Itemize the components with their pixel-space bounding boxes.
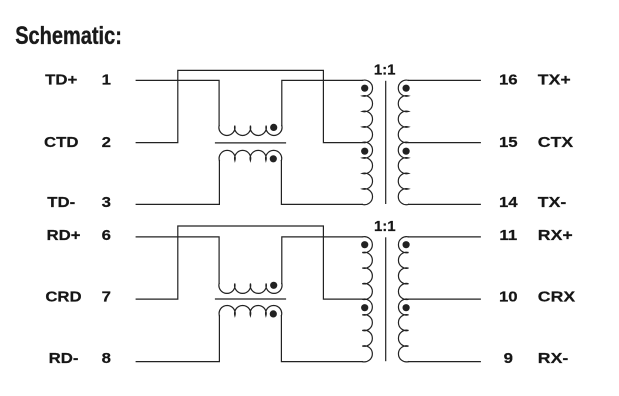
svg-text:CTX: CTX <box>538 134 573 150</box>
svg-text:7: 7 <box>102 289 111 305</box>
svg-text:3: 3 <box>102 195 111 211</box>
svg-text:CRX: CRX <box>538 289 575 305</box>
svg-text:6: 6 <box>102 228 111 244</box>
svg-text:CTD: CTD <box>44 135 78 151</box>
svg-text:16: 16 <box>499 72 518 88</box>
svg-text:2: 2 <box>102 135 111 151</box>
svg-text:Schematic:: Schematic: <box>15 22 122 50</box>
svg-text:RX-: RX- <box>538 350 568 366</box>
svg-text:TD-: TD- <box>47 195 75 211</box>
svg-text:CRD: CRD <box>45 289 81 305</box>
svg-text:RX+: RX+ <box>538 227 573 243</box>
svg-text:TX-: TX- <box>538 194 566 210</box>
svg-text:9: 9 <box>504 351 513 367</box>
svg-text:10: 10 <box>499 289 518 305</box>
svg-text:TD+: TD+ <box>45 72 77 88</box>
svg-text:RD-: RD- <box>49 351 79 367</box>
svg-text:14: 14 <box>499 195 518 211</box>
svg-text:1:1: 1:1 <box>374 61 396 78</box>
svg-text:15: 15 <box>499 135 518 151</box>
svg-text:11: 11 <box>499 228 517 244</box>
svg-text:TX+: TX+ <box>538 72 571 88</box>
svg-text:8: 8 <box>102 351 111 367</box>
svg-text:RD+: RD+ <box>46 228 80 244</box>
svg-text:1: 1 <box>102 72 111 88</box>
svg-text:1:1: 1:1 <box>374 218 396 235</box>
